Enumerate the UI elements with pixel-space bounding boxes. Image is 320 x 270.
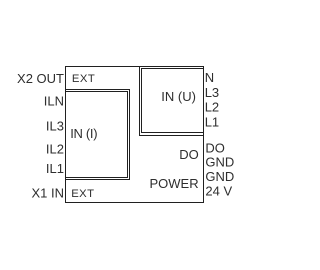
svg-text:EXT: EXT xyxy=(71,188,94,200)
svg-text:DO: DO xyxy=(179,147,199,162)
svg-text:IN (U): IN (U) xyxy=(161,89,196,104)
svg-text:GND: GND xyxy=(205,154,234,169)
svg-text:L1: L1 xyxy=(205,114,219,129)
svg-text:X2 OUT: X2 OUT xyxy=(17,71,64,86)
svg-text:L3: L3 xyxy=(205,85,219,100)
svg-text:EXT: EXT xyxy=(72,73,95,85)
svg-text:IN (I): IN (I) xyxy=(70,126,97,141)
svg-text:ILN: ILN xyxy=(44,93,64,108)
svg-text:GND: GND xyxy=(205,169,234,184)
svg-text:X1 IN: X1 IN xyxy=(31,186,64,201)
block IN (U) outer border xyxy=(140,67,204,136)
svg-text:IL3: IL3 xyxy=(46,118,64,133)
svg-text:IL1: IL1 xyxy=(46,161,64,176)
svg-text:POWER: POWER xyxy=(149,176,198,191)
block IN (I) outer border xyxy=(66,90,130,180)
module outer box xyxy=(66,67,204,203)
svg-text:24 V: 24 V xyxy=(205,184,232,199)
svg-text:L2: L2 xyxy=(205,99,219,114)
svg-text:DO: DO xyxy=(205,140,225,155)
block IN (U) inner border xyxy=(142,69,204,133)
svg-text:IL2: IL2 xyxy=(46,142,64,157)
block IN (I) inner border xyxy=(66,92,128,178)
svg-text:N: N xyxy=(205,70,214,85)
